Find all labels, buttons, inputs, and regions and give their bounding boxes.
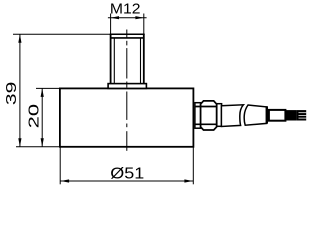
boot segment 1 (strain relief with break) xyxy=(221,105,243,127)
thread minor line left xyxy=(113,38,115,84)
cable wire strands block xyxy=(297,110,307,120)
svg-text:20: 20 xyxy=(26,104,43,128)
dimension Ø51 extension line left xyxy=(59,148,61,185)
dimension M12 line xyxy=(108,17,147,19)
dimension M12 arrow right xyxy=(135,16,144,19)
hex facet line top xyxy=(195,106,217,108)
cable strand gap 1 xyxy=(299,112,307,114)
dimension 39 extension line top xyxy=(13,33,113,35)
dimension 20 arrow bottom xyxy=(41,138,44,147)
dimension 39 arrow bottom xyxy=(18,138,21,147)
body (load cell cylinder Ø51) xyxy=(60,88,194,146)
flange (stud seat disc) xyxy=(108,84,146,89)
dimension 39 line xyxy=(19,34,21,147)
dimension Ø51 extension line right xyxy=(192,148,194,185)
dimension M12 extension line right xyxy=(143,14,145,35)
boot end thick edge xyxy=(266,106,268,123)
dimension 20 extension line top xyxy=(36,87,60,89)
cable gland collar xyxy=(195,103,201,129)
dimension 39 arrow top xyxy=(18,34,21,43)
svg-text:Ø51: Ø51 xyxy=(110,165,144,182)
hex facet line bottom xyxy=(195,123,217,125)
svg-text:M12: M12 xyxy=(110,0,141,17)
dimension 39/20 extension line bottom xyxy=(16,146,60,148)
dimension 20 arrow top xyxy=(41,88,44,97)
dimension Ø51 line xyxy=(60,180,193,182)
dimension M12 arrow left xyxy=(111,16,120,19)
dimension 20 line xyxy=(41,88,43,146)
dimension M12 extension line left xyxy=(110,14,112,35)
centerline (vertical dash-dot axis) xyxy=(126,30,128,151)
stud M12 outer left edge xyxy=(110,34,112,83)
boot segment 2 (after break) xyxy=(244,105,266,125)
thread minor line right xyxy=(140,38,142,84)
cable gland hex nut xyxy=(201,101,217,130)
cable sleeve rectangle xyxy=(269,110,286,121)
dimension Ø51 arrow left xyxy=(61,179,70,182)
cable strand gap 3 xyxy=(299,117,307,119)
dimension Ø51 arrow right xyxy=(184,179,193,182)
svg-text:39: 39 xyxy=(3,82,20,105)
cable strand gap 2 xyxy=(299,114,307,116)
stud M12 outer right edge xyxy=(143,34,145,83)
stud chamfer line xyxy=(110,37,144,39)
cable solid section xyxy=(286,110,297,120)
cable gland ring xyxy=(217,104,222,127)
stud top face xyxy=(110,33,145,35)
